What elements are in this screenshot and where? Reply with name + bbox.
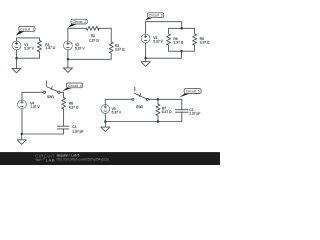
ground C3 bbox=[141, 58, 150, 66]
svg-text:1.37 V: 1.37 V bbox=[30, 105, 40, 109]
svg-text:SW2: SW2 bbox=[136, 105, 143, 109]
svg-text:2.37 Ω: 2.37 Ω bbox=[89, 38, 99, 42]
ground C2 bbox=[63, 59, 72, 72]
wire link C3 bbox=[181, 51, 183, 58]
wire top rail C1 bbox=[17, 37, 40, 39]
callout label Circuit_3 bbox=[145, 13, 164, 21]
junction node C3 bbox=[144, 57, 146, 59]
svg-text:Circuit_1: Circuit_1 bbox=[20, 27, 34, 31]
svg-text:1.37 Ω: 1.37 Ω bbox=[45, 46, 55, 50]
wire bottom rail C3 bbox=[146, 57, 182, 59]
svg-text:Circuit_3: Circuit_3 bbox=[149, 14, 163, 18]
wire top rail C4 bbox=[22, 91, 43, 93]
wire switch to R6 bbox=[60, 92, 64, 97]
capacitor C2 bbox=[176, 108, 201, 122]
wire top rail C3 bbox=[146, 22, 182, 29]
junction node top C3 bbox=[181, 27, 183, 29]
resistor R3 bbox=[109, 28, 125, 59]
svg-text:5.37 V: 5.37 V bbox=[153, 39, 163, 43]
wire bottom bar C3 bbox=[169, 50, 195, 52]
svg-text:Circuit_4: Circuit_4 bbox=[68, 84, 82, 88]
svg-text:LAB: LAB bbox=[46, 157, 55, 162]
svg-text:4.37 Ω: 4.37 Ω bbox=[69, 105, 79, 109]
svg-text:2.37 Ω: 2.37 Ω bbox=[173, 41, 183, 45]
junction node C2 bbox=[67, 58, 69, 60]
resistor R5 bbox=[193, 28, 210, 51]
resistor R2 bbox=[86, 26, 99, 42]
switch SW1 bbox=[43, 81, 60, 99]
voltage source V5 bbox=[101, 99, 122, 121]
wire bottom rail C2 bbox=[68, 58, 111, 60]
wire top rail C5 bbox=[105, 98, 132, 100]
voltage source V1 bbox=[12, 38, 35, 58]
callout label Circuit_5 bbox=[179, 89, 201, 98]
wire bottom rail C4 bbox=[22, 133, 64, 135]
svg-text:5.37 V: 5.37 V bbox=[75, 47, 85, 51]
svg-text:Circuit_5: Circuit_5 bbox=[186, 90, 200, 94]
svg-text:5.37 V: 5.37 V bbox=[112, 110, 122, 114]
svg-text:Circuit_2: Circuit_2 bbox=[73, 20, 87, 24]
junction node C4 bbox=[21, 133, 23, 135]
switch SW2 bbox=[132, 87, 149, 109]
junction node bottom bar C3 bbox=[180, 50, 182, 52]
junction node R7 top bbox=[157, 98, 159, 100]
junction node C5 bbox=[104, 120, 106, 122]
voltage source V3 bbox=[141, 22, 163, 59]
ground C5 bbox=[101, 122, 110, 132]
svg-text:3.37 Ω: 3.37 Ω bbox=[115, 47, 125, 51]
ground C1 bbox=[12, 58, 21, 73]
svg-text:3.37 Ω: 3.37 Ω bbox=[200, 41, 210, 45]
resistor R6 bbox=[62, 98, 79, 127]
svg-text:http://circuitlab.com/c/52hy95: http://circuitlab.com/c/52hy954y6z3e bbox=[57, 157, 110, 161]
callout label Circuit_1 bbox=[16, 27, 35, 36]
callout label Circuit_4 bbox=[62, 83, 83, 91]
ground C4 bbox=[17, 134, 26, 144]
voltage source V2 bbox=[64, 28, 86, 59]
callout label Circuit_2 bbox=[68, 19, 88, 28]
junction node C1 bbox=[15, 57, 17, 59]
svg-text:6.37 Ω: 6.37 Ω bbox=[162, 110, 172, 114]
junction node R7 bottom bbox=[157, 120, 159, 122]
capacitor C1 bbox=[57, 125, 83, 134]
wire bottom rail C5 bbox=[105, 121, 182, 123]
voltage source V4 bbox=[18, 92, 41, 134]
svg-text:SW1: SW1 bbox=[47, 95, 54, 99]
wire top bar C3 bbox=[169, 27, 195, 29]
wire bottom rail C1 bbox=[17, 57, 40, 59]
resistor R7 bbox=[156, 99, 172, 121]
wire switch to C2 bbox=[148, 99, 181, 110]
svg-text:1.37 µF: 1.37 µF bbox=[189, 112, 200, 116]
svg-text:1.37 µF: 1.37 µF bbox=[72, 129, 83, 133]
wire top rail C2 bbox=[68, 27, 111, 29]
svg-text:5.37 V: 5.37 V bbox=[24, 46, 34, 50]
resistor R1 bbox=[37, 38, 55, 58]
resistor R4 bbox=[167, 28, 184, 51]
